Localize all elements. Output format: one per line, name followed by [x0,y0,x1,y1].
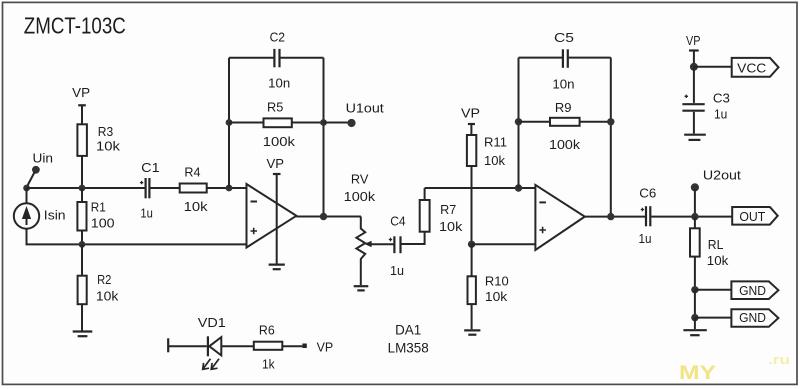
wire GND1 to GND2 [694,290,696,318]
svg-text:10n: 10n [268,76,290,91]
wire feedback top to C2 [229,57,324,59]
svg-text:100: 100 [91,216,115,231]
svg-text:DA1: DA1 [395,322,421,338]
value label C1 1u [140,160,159,221]
resistor RL [690,217,700,290]
wire feedback right vertical [323,58,325,217]
wire to GND1 connector [695,289,732,291]
value label R9 100k [549,100,581,152]
capacitor C4 [389,236,401,253]
connector GND 1 [731,281,778,299]
current source Isin [14,203,39,228]
wire stage2 feedback right vertical [610,58,612,217]
wire U1A output [296,216,361,218]
wire C3 to ground [693,112,695,134]
capacitor C2 [274,49,279,67]
resistor R1 [77,188,86,244]
svg-text:VCC: VCC [737,60,766,75]
op-amp U1A [247,184,297,248]
capacitor C6 [641,206,651,226]
capacitor C3 [682,95,704,111]
svg-text:C5: C5 [554,30,574,45]
capacitor C1 [140,178,150,198]
wire U2out lead [694,189,696,217]
value label C6 1u [639,186,657,246]
svg-text:100k: 100k [263,134,296,149]
resistor R2 [78,244,87,330]
junction VP/VCC/C3 [690,63,698,71]
wire Uin diagonal [27,172,35,187]
value label RL 10k [707,237,729,268]
svg-text:100k: 100k [344,189,376,204]
node Uin [32,151,53,174]
wire VD1 to R6 [221,345,254,347]
terminal bar VD1 cathode side [167,338,169,352]
svg-text:10k: 10k [96,139,120,154]
wire RV bottom lead [360,259,362,286]
svg-text:VP: VP [461,106,480,121]
svg-text:R10: R10 [485,274,509,289]
resistor R5 [264,118,292,127]
wire GND2 to ground [694,318,696,329]
svg-text:10k: 10k [484,153,505,168]
svg-text:1u: 1u [639,231,652,246]
svg-text:MY: MY [679,363,716,384]
junction R9 right [607,118,614,125]
junction current-source top [23,185,30,192]
power VP tick over op-amp U1A [267,156,285,264]
junction GND1 [691,286,698,293]
svg-text:C2: C2 [270,30,285,45]
junction R9 left [515,118,522,125]
svg-text:1u: 1u [714,107,727,122]
wire to VCC connector [694,66,732,68]
value label C3 1u [713,91,730,122]
wire non-inverting input net U1 (bottom rail) [26,243,247,245]
ground below op-amp U1A [269,265,285,270]
connector GND 2 [731,309,778,327]
svg-text:GND: GND [739,283,766,298]
value label C2 10n [268,30,290,91]
svg-text:R1: R1 [91,200,106,215]
svg-text:1u: 1u [140,206,153,221]
value label R1 100 [91,200,115,231]
ground below RV [354,286,369,290]
value label R6 1k [259,323,275,372]
svg-text:10k: 10k [707,253,729,268]
svg-text:U2out: U2out [703,168,741,183]
node U2out [691,168,742,192]
junction R5 right [320,119,327,126]
svg-text:R5: R5 [267,99,283,114]
svg-text:R7: R7 [440,202,456,217]
resistor R4 [180,184,207,193]
wire non-inverting rail stage2 [472,243,536,245]
wire current-source bottom lead [26,229,28,245]
value label R4 10k [184,165,208,215]
svg-text:1u: 1u [390,263,404,278]
connector VCC [732,58,779,77]
svg-text:RV: RV [351,171,369,186]
resistor R9 [550,118,580,126]
capacitor C5 [563,49,568,68]
svg-text:1k: 1k [262,357,275,372]
junction output/RL [691,213,698,220]
svg-text:10k: 10k [485,289,508,304]
wire to GND2 connector [695,317,732,319]
power VP tick over R3 [72,85,90,124]
power VP tick over C3 [686,33,701,67]
svg-text:Uin: Uin [33,151,54,166]
svg-text:OUT: OUT [739,209,765,224]
svg-text:10k: 10k [184,199,208,214]
svg-text:R11: R11 [484,135,507,150]
svg-text:10k: 10k [439,219,463,234]
svg-text:C6: C6 [639,186,656,201]
wire VP to C3 [693,67,695,103]
svg-text:U1out: U1out [346,101,385,116]
wire feedback left vertical [228,58,230,188]
value label RV 100k [344,171,376,203]
terminal square VP [302,344,306,349]
value label C5 10n [552,30,574,92]
value label R11 10k [484,135,507,169]
svg-text:VP: VP [317,340,334,355]
svg-text:RL: RL [708,237,724,252]
svg-text:Isin: Isin [44,208,66,223]
wire R9 right lead [580,121,611,123]
svg-text:C4: C4 [390,214,405,229]
svg-text:R3: R3 [98,124,113,139]
wire R9 left lead [519,121,551,123]
junction GND2 [691,314,698,321]
op-amp U1B [535,185,584,250]
IC label DA1 LM358 [388,322,429,356]
wire to U1out [324,122,350,124]
ground below R2 [73,332,93,337]
svg-text:10k: 10k [96,289,119,304]
value label R3 10k [96,124,120,154]
junction R11/R10 non-inverting [468,241,475,248]
resistor R3 [77,124,87,156]
svg-text:LM358: LM358 [388,340,429,356]
wire stage2 feedback top to C5 [519,57,611,59]
wire terminal to VD1 [168,345,207,347]
wire U1B output [585,216,645,218]
value label R7 10k [439,202,463,234]
svg-text:VP: VP [72,85,90,100]
diode VD1 (LED) [203,336,222,369]
wire current-source top lead [26,188,28,204]
ground below C3 [684,135,706,140]
ground below R10 [464,330,480,334]
resistor R10 [468,244,476,329]
junction U1A output / feedback [320,213,327,220]
wire R6 to VP terminal [282,345,302,347]
connector OUT [732,207,778,225]
junction R1/R2 [79,241,86,248]
wire R3 bottom lead [81,156,83,188]
svg-text:10n: 10n [552,77,574,92]
svg-text:VD1: VD1 [198,315,226,330]
wire stage2 feedback left vertical [518,58,520,188]
svg-text:100k: 100k [549,137,581,152]
svg-text:R4: R4 [184,165,200,180]
value label R2 10k [96,272,119,304]
potentiometer RV [356,229,394,260]
ground below RL chain [683,330,706,335]
junction R3/R1 [79,185,86,192]
value label R5 100k [263,99,296,149]
wire C4 to R7 [402,232,425,244]
value label R10 10k [485,274,509,305]
wire C1 to R4 [150,187,179,189]
svg-text:R2: R2 [97,272,111,287]
wire RV top lead [360,217,362,230]
resistor R6 [254,342,282,350]
wire inverting input rail y188 [27,187,145,189]
svg-text:VP: VP [686,33,701,48]
junction feedback left / inverting input [226,185,233,192]
svg-text:R6: R6 [259,323,275,338]
wire C6 to OUT [651,216,732,218]
svg-text:C3: C3 [713,91,730,106]
svg-text:.ru: .ru [768,352,790,367]
wire R5 right lead [292,122,324,124]
wire inverting rail stage2 [425,187,536,189]
resistor R7 [420,188,430,232]
svg-text:ZMCT-103C: ZMCT-103C [24,13,126,39]
wire R5 left lead [229,122,264,124]
svg-text:R9: R9 [555,100,572,115]
node U1out [346,101,385,128]
wire R4 to op-amp U1A inverting input [207,187,247,189]
svg-text:C1: C1 [141,160,160,175]
junction R5 left [226,119,233,126]
svg-text:VP: VP [267,156,285,171]
junction U1B output / feedback [607,213,614,220]
svg-text:GND: GND [739,310,766,325]
power VP tick over R11 [461,106,480,136]
junction stage2 feedback / inverting input [515,184,522,191]
resistor R11 [467,135,476,244]
value label C4 1u [390,214,406,279]
